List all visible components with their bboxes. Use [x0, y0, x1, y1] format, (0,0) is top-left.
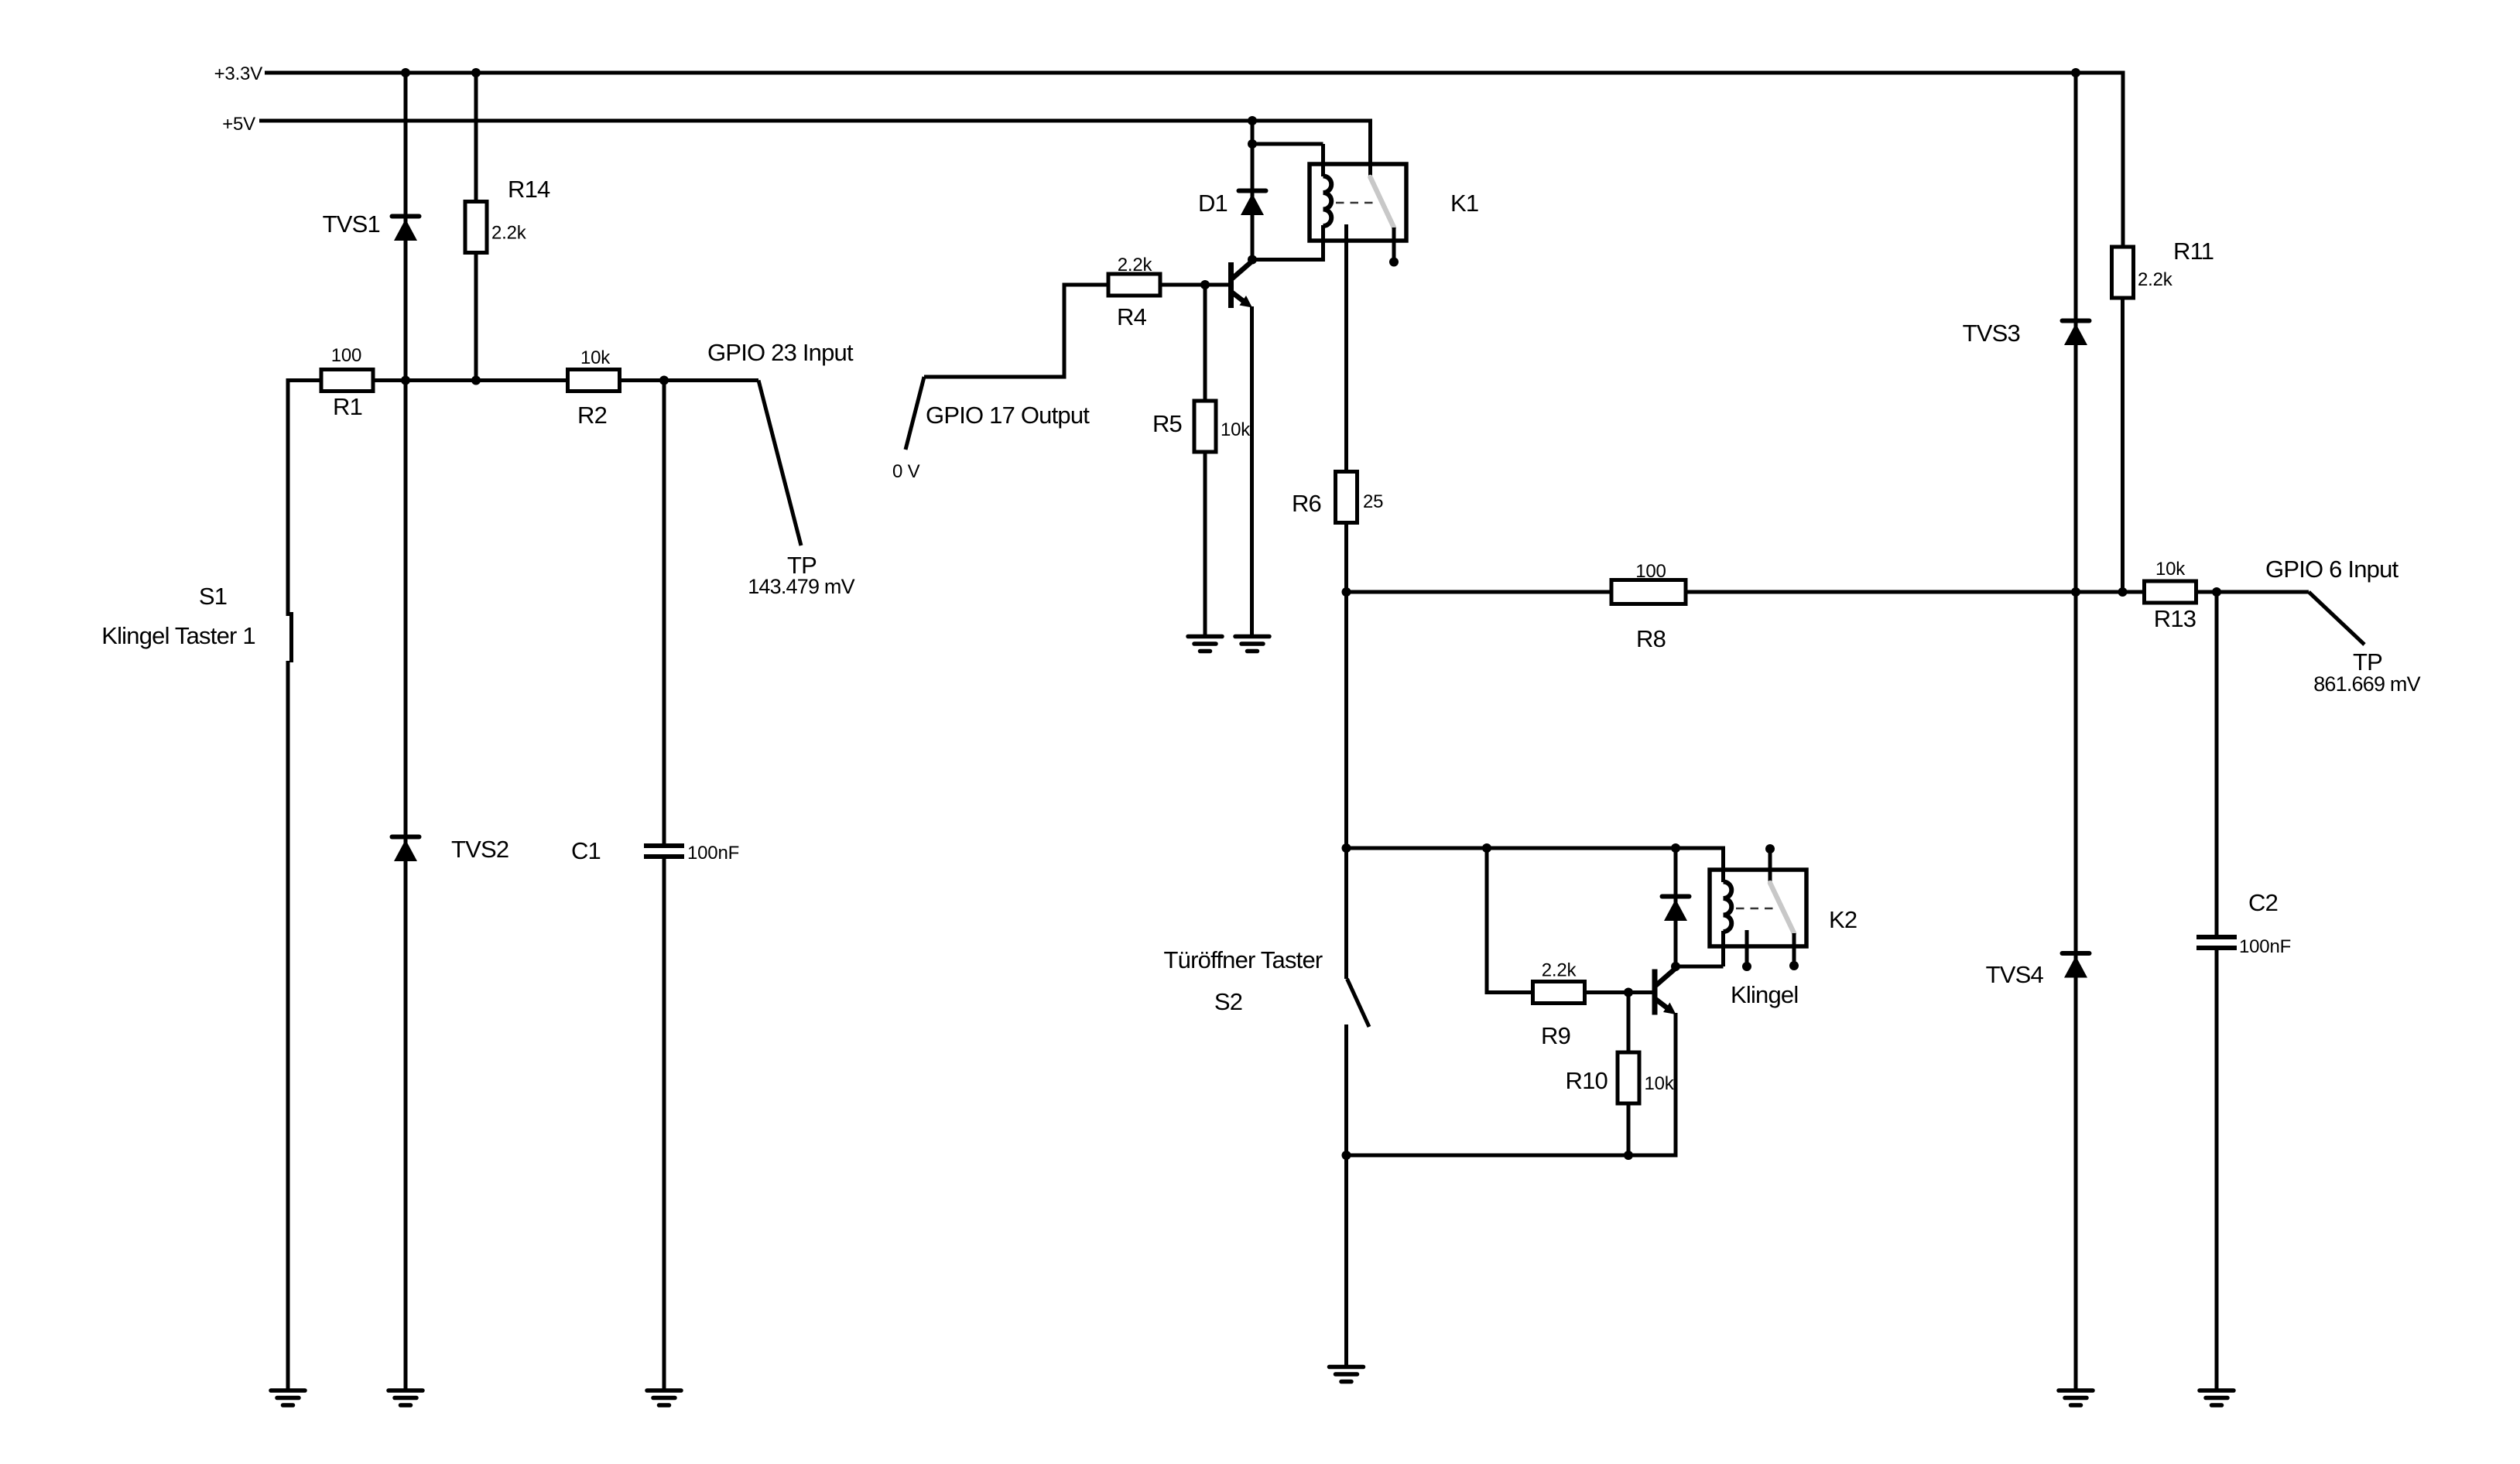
- relay K2 box: [1710, 870, 1806, 946]
- wire +3.3V to R11: [2121, 71, 2125, 249]
- resistor R10: [1566, 1052, 1675, 1103]
- label TP GPIO23: [787, 552, 817, 579]
- wire base node to R5: [1204, 285, 1207, 402]
- resistor R5: [1152, 401, 1251, 452]
- relay K2 switch blade: [1770, 883, 1794, 933]
- svg-text:TVS1: TVS1: [323, 210, 380, 238]
- svg-text:TP: TP: [2353, 648, 2382, 676]
- relay K2 switch common pin: [1765, 844, 1775, 883]
- wire bottom horizontal: [1347, 1154, 1676, 1158]
- wire TVS4 column: [2074, 592, 2078, 1390]
- label TP value GPIO23: [748, 575, 854, 598]
- relay K2 dashed link: [1736, 908, 1776, 910]
- junction node R14 bottom: [471, 376, 481, 385]
- label TP value GPIO6: [2313, 672, 2420, 696]
- wire R14 branch upper: [474, 73, 478, 204]
- label S1: [199, 583, 227, 610]
- svg-text:143.479 mV: 143.479 mV: [748, 575, 854, 598]
- wire K1 coil top: [1321, 144, 1325, 176]
- ground R5: [1188, 637, 1222, 652]
- wire R9 branch down: [1485, 848, 1489, 993]
- wire R9 to Q2 base: [1584, 990, 1655, 994]
- diode D2: [1662, 897, 1690, 922]
- svg-text:TVS2: TVS2: [451, 836, 508, 863]
- label +3.3V: [214, 63, 263, 84]
- resistor R14: [465, 176, 550, 253]
- junction node R1/TVS: [401, 376, 410, 385]
- wire C1 to ground: [663, 859, 666, 1390]
- svg-text:R11: R11: [2173, 238, 2214, 265]
- svg-text:10k: 10k: [1221, 419, 1251, 440]
- svg-text:2.2k: 2.2k: [491, 223, 527, 244]
- svg-text:S1: S1: [199, 583, 227, 610]
- svg-text:R5: R5: [1152, 410, 1182, 437]
- junction node Q1 collector: [1248, 255, 1257, 265]
- svg-text:+3.3V: +3.3V: [214, 63, 263, 84]
- wire base node to R10: [1627, 993, 1631, 1055]
- relay K1 dashed link: [1336, 202, 1376, 204]
- svg-text:R1: R1: [333, 393, 362, 420]
- relay K1 switch blade: [1371, 177, 1395, 227]
- svg-text:R8: R8: [1636, 625, 1666, 652]
- wire GPIO17 to R4: [924, 285, 1110, 377]
- resistor R2: [568, 347, 620, 429]
- junction node +3.3V/TVS3: [2071, 68, 2080, 77]
- lead to TP GPIO23: [758, 381, 801, 546]
- svg-text:10k: 10k: [580, 347, 611, 368]
- junction node R9 top: [1482, 843, 1491, 853]
- svg-text:R10: R10: [1566, 1067, 1608, 1094]
- label 0 V: [892, 461, 920, 482]
- diode D1: [1198, 190, 1266, 217]
- wire K1 coil bottom: [1321, 225, 1325, 262]
- junction node Q2 base/R10: [1624, 988, 1633, 997]
- junction node R8/TVS: [2071, 587, 2080, 597]
- wire D1 branch to K1 coil: [1252, 142, 1323, 146]
- wire R10 to bottom node: [1627, 1102, 1631, 1155]
- svg-text:2.2k: 2.2k: [1542, 960, 1577, 981]
- ground C2: [2200, 1390, 2234, 1405]
- junction node R6/R8: [1342, 587, 1351, 597]
- TVS diode TVS3: [1963, 320, 2090, 347]
- junction node +3.3V/TVS1: [401, 68, 410, 77]
- resistor R13: [2145, 559, 2196, 632]
- svg-text:10k: 10k: [1645, 1073, 1675, 1094]
- wire +3.3V to TVS1/TVS2 column: [404, 73, 408, 1390]
- label GPIO 6 Input: [2265, 556, 2399, 583]
- relay K1 common pin stub: [0, 0, 1, 1]
- svg-text:100nF: 100nF: [687, 843, 739, 864]
- wire R11 to node: [2121, 296, 2125, 592]
- wire K2 coil bottom: [1721, 931, 1725, 966]
- svg-text:K2: K2: [1829, 906, 1857, 933]
- switch S1 blade: [289, 612, 293, 662]
- wire Q1 emitter to ground: [1250, 306, 1254, 637]
- label Klingel Taster 1: [101, 622, 255, 649]
- label S2: [1214, 988, 1242, 1015]
- svg-text:2.2k: 2.2k: [1118, 255, 1153, 275]
- wire K2 coil drop: [1721, 847, 1725, 883]
- svg-text:TVS4: TVS4: [1986, 961, 2044, 988]
- resistor R9: [1533, 960, 1585, 1050]
- relay K1 NO pin: [1389, 227, 1399, 267]
- svg-text:Klingel Taster 1: Klingel Taster 1: [101, 622, 255, 649]
- resistor R4: [1108, 255, 1160, 330]
- wire S2 node to ground: [1344, 1155, 1348, 1367]
- label GPIO 23 Input: [707, 339, 854, 366]
- label TP GPIO6: [2353, 648, 2382, 676]
- TVS diode TVS4: [1986, 953, 2090, 988]
- svg-text:2.2k: 2.2k: [2138, 269, 2173, 290]
- junction node R13/C2: [2212, 587, 2221, 597]
- ground S1: [271, 1390, 305, 1405]
- capacitor C1: [571, 837, 739, 864]
- svg-text:100: 100: [331, 345, 361, 366]
- relay K2 NO pin: [1789, 933, 1799, 970]
- svg-text:R2: R2: [577, 402, 607, 429]
- relay K1 box: [1310, 164, 1406, 241]
- wire node to R8 to GPIO6: [1347, 590, 2309, 594]
- svg-text:10k: 10k: [2155, 559, 2186, 580]
- wire node to C1: [663, 381, 666, 844]
- junction node D2 top: [1671, 843, 1680, 853]
- svg-text:C2: C2: [2248, 889, 2278, 916]
- wire S1 to ground: [286, 661, 290, 1390]
- ground Q1 emitter: [1235, 637, 1269, 652]
- lead to TP GPIO6: [2309, 592, 2364, 645]
- transistor Q2: [1655, 967, 1677, 1015]
- wire coil to Q2 collector: [1676, 965, 1724, 969]
- wire R4 to Q1 base: [1159, 283, 1231, 287]
- ground S2: [1330, 1367, 1364, 1382]
- junction node R8/R11: [2118, 587, 2128, 597]
- label Tueroeffner Taster: [1164, 946, 1323, 973]
- wire top horizontal K2 net: [1347, 847, 1724, 850]
- svg-text:D1: D1: [1198, 190, 1227, 217]
- junction node Q2 collector: [1671, 962, 1680, 971]
- junction node Q1 base/R5: [1200, 280, 1210, 289]
- svg-text:C1: C1: [571, 837, 601, 864]
- wire TVS3 column: [2074, 73, 2078, 592]
- capacitor C2: [2196, 889, 2291, 957]
- resistor R6: [1292, 472, 1383, 523]
- wire +5V down to K1 switch common: [1368, 119, 1372, 178]
- junction node R2/C1: [659, 376, 669, 385]
- svg-text:K1: K1: [1450, 190, 1478, 217]
- label +5V: [222, 114, 255, 135]
- svg-text:Türöffner Taster: Türöffner Taster: [1164, 946, 1323, 973]
- wire node down to S2: [1344, 592, 1348, 979]
- wire R1 left to S1: [286, 378, 290, 616]
- junction node S2 bottom: [1342, 1151, 1351, 1160]
- svg-text:R14: R14: [508, 176, 550, 203]
- junction node S2 top: [1342, 843, 1351, 853]
- svg-text:R4: R4: [1117, 303, 1147, 330]
- svg-text:R6: R6: [1292, 490, 1321, 517]
- resistor R8: [1611, 561, 1686, 652]
- relay K1 coil: [1323, 176, 1332, 227]
- TVS diode TVS2: [392, 836, 509, 863]
- svg-text:100nF: 100nF: [2239, 936, 2291, 957]
- wire collector to coil bottom: [1252, 258, 1323, 262]
- svg-text:R9: R9: [1541, 1022, 1570, 1049]
- svg-text:0 V: 0 V: [892, 461, 920, 482]
- ground TVS2: [389, 1390, 423, 1405]
- svg-text:GPIO 23 Input: GPIO 23 Input: [707, 339, 854, 366]
- relay K2 coil: [1724, 882, 1732, 932]
- label K1: [1450, 190, 1478, 217]
- svg-text:S2: S2: [1214, 988, 1242, 1015]
- svg-text:GPIO 6 Input: GPIO 6 Input: [2265, 556, 2399, 583]
- svg-text:R13: R13: [2154, 605, 2196, 632]
- wire R9 branch to resistor: [1485, 990, 1534, 994]
- transistor Q1: [1231, 261, 1254, 309]
- resistor R1: [321, 345, 373, 420]
- label GPIO 17 Output: [926, 402, 1090, 429]
- wire K1 pin to R6: [1344, 224, 1348, 474]
- svg-text:25: 25: [1363, 491, 1383, 512]
- wire R14 branch lower: [474, 251, 478, 381]
- svg-text:+5V: +5V: [222, 114, 255, 135]
- resistor R11: [2112, 238, 2214, 298]
- junction node R10 bottom: [1624, 1151, 1633, 1160]
- svg-text:GPIO 17 Output: GPIO 17 Output: [926, 402, 1090, 429]
- label K2: [1829, 906, 1857, 933]
- power rail +3.3V wire: [265, 71, 2123, 75]
- TVS diode TVS1: [323, 210, 419, 241]
- junction node +3.3V/R14: [471, 68, 481, 77]
- wire R1 to R2 node: [288, 378, 758, 382]
- svg-text:861.669 mV: 861.669 mV: [2313, 672, 2420, 696]
- wire R6 to node R8: [1344, 521, 1348, 592]
- wire +5V to D1 to collector: [1251, 121, 1255, 260]
- wire R5 to ground: [1204, 450, 1207, 637]
- ground TVS4: [2059, 1390, 2093, 1405]
- ground C1: [647, 1390, 681, 1405]
- svg-text:100: 100: [1635, 561, 1666, 582]
- wire C2 to ground: [2215, 950, 2219, 1390]
- relay K2 middle pin: [1742, 930, 1751, 971]
- wire S2 to bottom node: [1344, 1024, 1348, 1155]
- wire C2 upper: [2215, 592, 2219, 935]
- junction node +5V/D1: [1248, 116, 1257, 125]
- svg-text:TVS3: TVS3: [1963, 320, 2020, 347]
- label Klingel: [1731, 981, 1798, 1008]
- switch S2 blade: [1347, 979, 1370, 1027]
- power rail +5V wire: [259, 119, 1371, 123]
- lead 0V GPIO17: [906, 377, 924, 450]
- wire Q2 emitter down: [1674, 1013, 1678, 1158]
- svg-text:Klingel: Klingel: [1731, 981, 1798, 1008]
- junction node D1/coil: [1248, 139, 1257, 149]
- wire D2 column: [1674, 848, 1678, 966]
